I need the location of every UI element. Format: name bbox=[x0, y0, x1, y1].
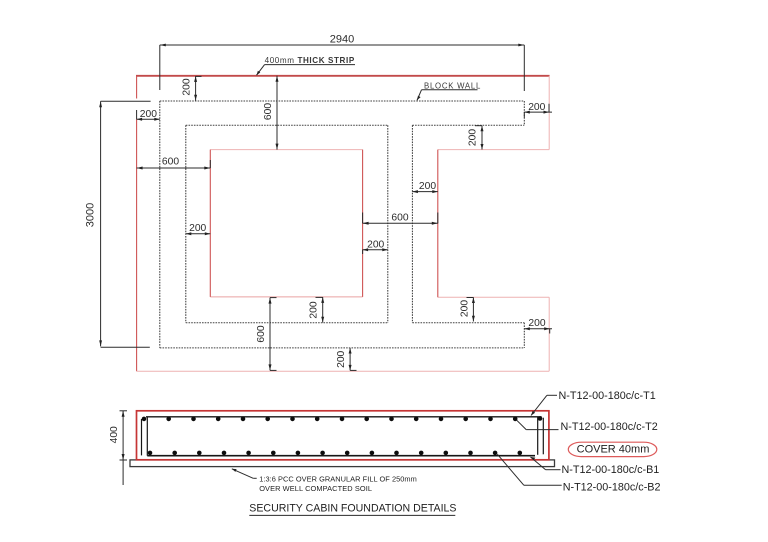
svg-text:200: 200 bbox=[419, 181, 436, 192]
svg-text:400mm THICK STRIP: 400mm THICK STRIP bbox=[265, 56, 355, 65]
dim 200 vertical bottom wall bbox=[336, 348, 357, 370]
block wall outer bottom bbox=[160, 347, 525, 349]
label N-T12-00-180c/c-B1 with leader bbox=[531, 457, 660, 476]
dim 2940 bbox=[160, 33, 525, 91]
strip footing notch bottom edge bbox=[438, 296, 549, 298]
svg-text:BLOCK WALL: BLOCK WALL bbox=[424, 81, 481, 90]
svg-text:N-T12-00-180c/c-B1: N-T12-00-180c/c-B1 bbox=[562, 464, 660, 476]
dim 600 vertical bottom-middle bbox=[256, 298, 277, 371]
svg-text:200: 200 bbox=[182, 78, 193, 95]
section concrete outline (red) bbox=[137, 411, 549, 460]
svg-text:200: 200 bbox=[468, 129, 479, 146]
strip footing notch top edge bbox=[438, 149, 549, 151]
svg-text:600: 600 bbox=[162, 157, 179, 168]
block wall internal partition left face bbox=[387, 125, 389, 322]
block wall outer top bbox=[160, 100, 525, 102]
rebar cage: bottom bar bbox=[147, 455, 535, 457]
svg-text:2940: 2940 bbox=[330, 33, 354, 45]
svg-text:200: 200 bbox=[367, 239, 384, 250]
dim 200 vertical lower-right bbox=[460, 297, 475, 321]
svg-text:200: 200 bbox=[528, 318, 545, 329]
title SECURITY CABIN FOUNDATION DETAILS bbox=[249, 503, 456, 516]
strip footing outer outline right upper edge bbox=[548, 76, 550, 150]
svg-text:200: 200 bbox=[140, 109, 157, 120]
strip footing outer outline left edge bbox=[136, 76, 138, 371]
block wall right end cap top bbox=[523, 101, 525, 125]
svg-text:600: 600 bbox=[391, 212, 408, 223]
strip footing outer outline bottom edge bbox=[137, 370, 550, 372]
svg-text:200: 200 bbox=[460, 300, 471, 317]
svg-text:600: 600 bbox=[256, 325, 267, 342]
label BLOCK WALL with leader bbox=[417, 81, 481, 100]
strip footing inner edge left room: bottom bbox=[210, 296, 362, 298]
strip footing inner edge left room: left bbox=[209, 150, 211, 297]
rebar cage: right hook outer bbox=[542, 418, 544, 455]
block wall internal partition right face bbox=[411, 125, 413, 322]
strip footing outer outline right lower edge bbox=[548, 297, 550, 371]
svg-text:3000: 3000 bbox=[85, 203, 97, 227]
strip footing outer outline top edge bbox=[136, 75, 550, 77]
top distribution bars (dots) bbox=[142, 416, 543, 421]
svg-text:200: 200 bbox=[309, 301, 320, 318]
svg-text:200: 200 bbox=[336, 350, 347, 367]
bottom distribution bars (dots) bbox=[148, 451, 522, 456]
strip footing inner edge left room: top bbox=[210, 149, 362, 151]
rebar cage: left hook inner bbox=[146, 417, 148, 456]
label 400mm THICK STRIP with leader bbox=[257, 56, 356, 75]
label COVER 40mm in red oval bbox=[568, 442, 657, 456]
dim 200 vertical lower-middle bbox=[309, 297, 325, 323]
svg-text:600: 600 bbox=[263, 103, 274, 120]
block wall inner left bbox=[185, 125, 187, 322]
label N-T12-00-180c/c-B2 with leader bbox=[497, 454, 660, 493]
svg-text:OVER WELL COMPACTED SOIL: OVER WELL COMPACTED SOIL bbox=[259, 484, 372, 493]
label N-T12-00-180c/c-T1 with leader bbox=[531, 390, 656, 416]
svg-text:N-T12-00-180c/c-B2: N-T12-00-180c/c-B2 bbox=[563, 482, 661, 494]
dim 200 horizontal top-right corner bbox=[524, 102, 552, 118]
block wall inner top left span bbox=[186, 124, 388, 126]
dim 600 vertical top-middle bbox=[263, 76, 279, 150]
block wall inner top right span bbox=[412, 124, 524, 126]
dim 200 horizontal bottom-right corner bbox=[524, 318, 552, 333]
dim 200 vertical top-left bbox=[182, 76, 202, 101]
rebar cage: left hook outer bbox=[141, 419, 143, 455]
strip footing notch left edge bbox=[437, 150, 439, 298]
rebar cage: top bar bbox=[146, 416, 542, 418]
block wall inner bottom right span bbox=[412, 322, 524, 324]
label N-T12-00-180c/c-T2 with leader bbox=[517, 420, 658, 433]
svg-text:200: 200 bbox=[528, 102, 545, 113]
svg-text:400: 400 bbox=[109, 426, 120, 443]
dim 3000 bbox=[85, 101, 151, 347]
dim 600 horizontal left bbox=[137, 157, 211, 170]
svg-text:N-T12-00-180c/c-T1: N-T12-00-180c/c-T1 bbox=[559, 390, 656, 402]
rebar cage: right hook inner bbox=[537, 417, 539, 455]
dim 200 horizontal at partition left bbox=[363, 239, 388, 254]
PCC blinding layer bbox=[130, 460, 555, 467]
block wall outer left bbox=[159, 101, 161, 348]
dim 400 section bbox=[109, 411, 127, 485]
dim 200 horizontal at partition right bbox=[412, 181, 437, 193]
strip footing inner edge left room: right bbox=[362, 150, 364, 297]
dim 600 horizontal middle bbox=[363, 212, 438, 225]
svg-text:COVER 40mm: COVER 40mm bbox=[577, 444, 650, 456]
dim 200 vertical top-right bbox=[468, 126, 484, 150]
svg-text:200: 200 bbox=[189, 223, 206, 234]
block wall inner bottom left span bbox=[186, 322, 388, 324]
svg-text:1:3:6 PCC OVER GRANULAR FILL O: 1:3:6 PCC OVER GRANULAR FILL OF 250mm bbox=[259, 475, 417, 484]
block wall right end cap bottom bbox=[523, 323, 525, 348]
dim 200 horizontal left bbox=[137, 109, 160, 121]
dim 200 horizontal mid-left bbox=[186, 223, 211, 236]
svg-text:SECURITY CABIN FOUNDATION DETA: SECURITY CABIN FOUNDATION DETAILS bbox=[249, 503, 456, 515]
svg-text:N-T12-00-180c/c-T2: N-T12-00-180c/c-T2 bbox=[561, 421, 658, 433]
PCC note with leader bbox=[232, 469, 417, 493]
